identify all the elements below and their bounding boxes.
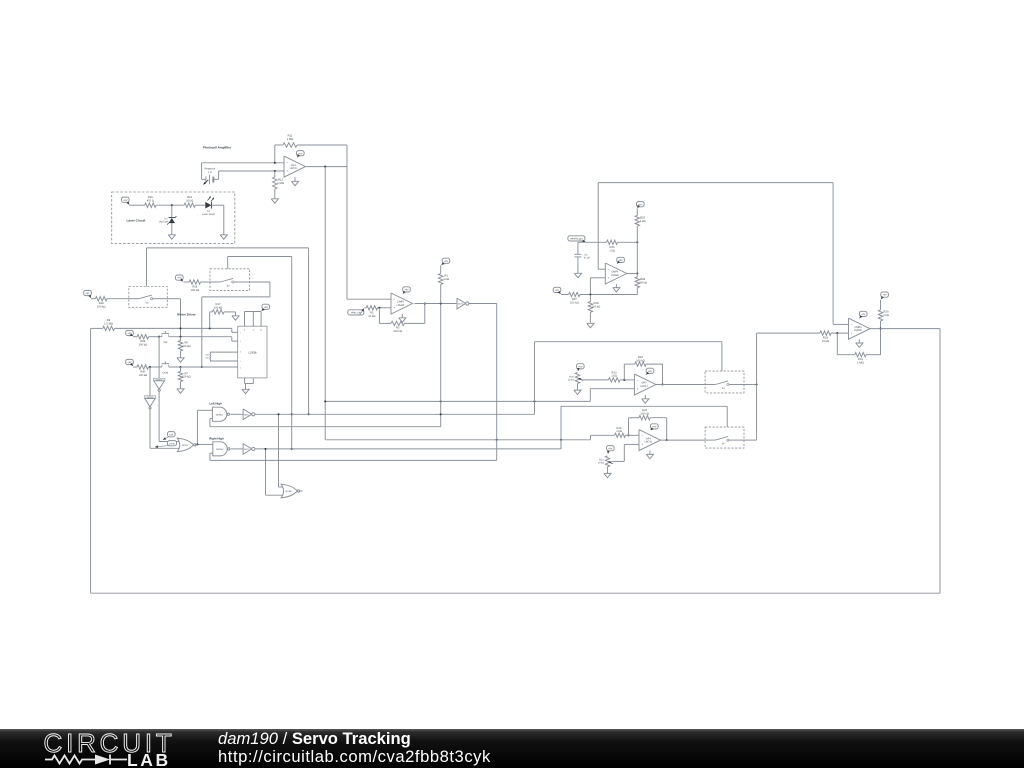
resistor R28 hyst [635, 274, 639, 295]
wire NOT3 out [159, 391, 179, 441]
node CMP1 pullup [440, 302, 442, 304]
flag VRef CMP1 [348, 309, 364, 316]
node OP1 out fb [666, 439, 668, 441]
svg-text:100 kΩ: 100 kΩ [191, 289, 200, 292]
wire S7 ctrl [561, 406, 727, 449]
wire IC top pins [245, 312, 262, 327]
wire feedback vertical [346, 145, 348, 167]
svg-text:Laser Diode: Laser Diode [202, 213, 216, 216]
photocell PC1 [202, 163, 219, 185]
op-amp CMP6 [849, 318, 871, 339]
inverter NOT1 [243, 409, 255, 420]
zener D2 [167, 205, 176, 233]
wire NOT5 out [469, 304, 497, 461]
svg-text:+9V: +9V [648, 370, 653, 373]
wire CMP4 minus stub [598, 268, 605, 270]
svg-text:9: 9 [253, 328, 254, 331]
resistor R14 [184, 280, 211, 284]
svg-text:NAND2: NAND2 [216, 448, 224, 451]
wire row D [325, 435, 614, 440]
svg-text:1 MΩ: 1 MΩ [277, 182, 284, 185]
svg-text:10 kΩ: 10 kΩ [368, 315, 375, 318]
svg-text:6: 6 [240, 366, 241, 369]
wire CCW to NOT4 [149, 367, 151, 396]
resistor-diode squiggle [45, 755, 127, 765]
svg-text:+: + [851, 331, 853, 335]
node NOT1 NOR5 [277, 413, 279, 415]
wire NOR5 out stub [299, 490, 303, 492]
switch S3 [129, 287, 168, 308]
flag V+ OA1 [297, 151, 305, 158]
wire switch bus up [756, 333, 758, 440]
wire NOT2 out row [255, 440, 561, 449]
wire CMP1 out [415, 303, 458, 305]
ground OP2 [642, 395, 649, 403]
svg-text:100 kΩ: 100 kΩ [182, 345, 191, 348]
label C2 [584, 254, 591, 260]
label R28 [638, 278, 647, 284]
svg-text:+9V: +9V [123, 199, 128, 202]
svg-text:S7: S7 [722, 443, 726, 446]
wire OP1 plus [613, 444, 639, 461]
flag V+ laser [122, 197, 130, 205]
laser diode D1 [205, 196, 224, 208]
label Laser Circuit [127, 219, 146, 223]
label R22 [636, 356, 645, 362]
resistor R24 [820, 331, 849, 335]
node CMP1 out fb [424, 302, 426, 304]
inverter NOT5 [457, 298, 469, 309]
switch S2 [210, 269, 250, 291]
svg-text:1: 1 [240, 331, 241, 334]
svg-text:+9V: +9V [619, 259, 624, 262]
resistor R27 [561, 292, 637, 296]
label R31 [857, 358, 864, 364]
flag V+ S3row [84, 290, 92, 298]
resistor R30 [878, 300, 882, 329]
ground CMP1 [399, 314, 406, 322]
svg-text:+9V: +9V [608, 447, 613, 450]
svg-text:7: 7 [240, 360, 241, 363]
flag V+ CMP4 [617, 257, 625, 263]
label Left High [209, 402, 222, 406]
op-amp CMP1 [391, 293, 413, 314]
svg-text:CCW: CCW [169, 442, 175, 445]
svg-text:NOT1: NOT1 [244, 413, 250, 416]
wire laser row [129, 204, 144, 206]
wire NOT1 to NOR5 [279, 414, 283, 487]
flag V+ pot R21 [607, 446, 615, 454]
label R17 [214, 303, 223, 309]
wire laser to gnd [223, 205, 225, 233]
ground R6 [177, 356, 184, 362]
resistor R2 CMP1 [365, 306, 392, 310]
label Right High [209, 436, 224, 440]
node CMP4 div [589, 293, 591, 295]
svg-text:LM741: LM741 [645, 441, 653, 444]
wire OA1 output [306, 166, 347, 168]
wire ref row [578, 241, 607, 243]
svg-text:16: 16 [260, 328, 262, 331]
svg-text:1N4733A: 1N4733A [159, 221, 169, 224]
wire CMP4 minus long [598, 183, 848, 325]
svg-text:100 kΩ: 100 kΩ [393, 330, 402, 333]
label R23 [640, 409, 649, 415]
svg-text:+9V: +9V [298, 152, 303, 155]
label R2 [368, 312, 375, 318]
svg-text:LM339: LM339 [397, 304, 405, 307]
svg-text:Photocell Amplifier: Photocell Amplifier [203, 146, 232, 150]
svg-text:NOR1: NOR1 [182, 444, 189, 447]
capacitor C2 [574, 242, 581, 271]
ground OP1 [646, 451, 653, 459]
flag V+ IC [262, 304, 270, 311]
op-amp OP2 [634, 374, 656, 395]
wire CMP6 out [870, 328, 940, 330]
svg-text:1 MΩ: 1 MΩ [287, 138, 294, 141]
label R13 [611, 371, 617, 377]
flag CCW net [155, 441, 177, 448]
svg-text:10 kΩ: 10 kΩ [568, 379, 575, 382]
node NAND2 in1 [196, 443, 198, 445]
potentiometer R21 [605, 456, 613, 467]
svg-text:L293B: L293B [248, 350, 256, 354]
wire OA1 minus row [202, 162, 284, 164]
svg-text:100 kΩ: 100 kΩ [636, 359, 645, 362]
switch S7 [705, 427, 744, 448]
node OP2 minus [623, 379, 625, 381]
label R9 [104, 319, 113, 325]
svg-text:1 kΩ: 1 kΩ [883, 314, 889, 317]
resistor R11 [275, 143, 347, 147]
ground R17 [232, 314, 239, 320]
svg-text:+: + [641, 443, 643, 447]
svg-text:+: + [286, 169, 288, 173]
label R8 [139, 340, 148, 346]
wire IC bottom pins [245, 378, 254, 388]
node CW R6 [179, 336, 181, 338]
label D1 [202, 210, 216, 216]
wire pullup to out [636, 242, 638, 273]
op-amp OP1 [639, 430, 661, 451]
svg-text:LM339: LM339 [611, 274, 619, 277]
gate NAND2 [213, 442, 230, 456]
ground OA1 [291, 177, 298, 185]
svg-text:100 kΩ: 100 kΩ [214, 306, 223, 309]
gate NOR5 [281, 484, 300, 498]
svg-text:S3: S3 [145, 301, 149, 304]
op-amp CMP4 [605, 263, 627, 284]
wire OP2 fb [624, 362, 662, 385]
svg-text:1 kΩ: 1 kΩ [640, 220, 646, 223]
wire OP1 out [661, 439, 706, 441]
ground CMP4 [613, 284, 620, 292]
label R3 [393, 327, 402, 333]
node CMP4 out [636, 272, 638, 274]
svg-text:100 kΩ: 100 kΩ [640, 413, 649, 416]
motor M1 [206, 352, 238, 361]
node ref out [636, 241, 638, 243]
wire bus to pin1 [232, 328, 238, 332]
svg-text:S2: S2 [227, 285, 231, 288]
svg-text:100 kΩ: 100 kΩ [570, 301, 579, 304]
resistor R26 [607, 240, 638, 244]
svg-text:1 kΩ: 1 kΩ [616, 430, 622, 433]
wire CW to NOT3 [158, 337, 160, 379]
label R30 [883, 311, 889, 317]
svg-text:M1: M1 [206, 353, 210, 356]
wire NOT1 out row [255, 413, 535, 415]
label R16 [186, 196, 193, 202]
svg-text:+9V: +9V [404, 289, 409, 292]
wire S3 control [147, 248, 309, 414]
flag V+ CMP6 [859, 311, 867, 318]
wire S2 control [228, 257, 292, 449]
laser circuit box [112, 192, 235, 244]
inverter NOT4 [144, 396, 156, 409]
flag V+ R30 [881, 292, 889, 299]
resistor R15 [145, 203, 185, 207]
wire bottom rail [91, 592, 940, 594]
label R14 [191, 286, 200, 292]
wire OA1 out down [347, 167, 391, 300]
node CMP6 plus [836, 332, 838, 334]
wire OP1 fb [629, 416, 667, 441]
pushbutton CW [159, 331, 232, 344]
node CMP6 out [879, 328, 881, 330]
wire NAND1 in1 [197, 410, 212, 444]
node CMP1 plus [378, 307, 380, 309]
svg-text:8: 8 [244, 328, 245, 331]
svg-text:1 kΩ: 1 kΩ [609, 249, 615, 252]
resistor R7 [178, 367, 182, 387]
wire NOT4 out [150, 409, 179, 448]
label D2 [159, 218, 169, 224]
resistor R16 [184, 203, 205, 207]
resistor R29 [588, 295, 592, 322]
wire CMP4 plus [590, 278, 605, 295]
wire NAND1 in2 [210, 419, 441, 427]
svg-text:1 Ω: 1 Ω [208, 171, 212, 174]
svg-text:−: − [851, 323, 853, 327]
label R18 [97, 302, 106, 308]
svg-text:+9V: +9V [578, 365, 583, 368]
svg-text:+9V: +9V [555, 289, 560, 292]
ground R12 [271, 197, 278, 203]
node S4 out [756, 383, 758, 385]
inverter NOT2 [243, 444, 255, 455]
ground R29 [587, 322, 594, 328]
label R21 [598, 458, 605, 464]
resistor R40 [133, 365, 162, 369]
flag CW net [163, 432, 175, 440]
node NOT2 NOR5 [264, 448, 266, 450]
gate NOR1 [177, 438, 196, 452]
svg-text:+: + [637, 387, 639, 391]
pushbutton CCW [162, 361, 238, 374]
node bus S3 [179, 327, 181, 329]
svg-text:+9V: +9V [861, 313, 866, 316]
wire NAND2 in2 [210, 453, 497, 460]
flag VRefToLight [568, 236, 586, 243]
svg-text:100 kΩ: 100 kΩ [182, 376, 191, 379]
node S3 ctrl join [308, 413, 310, 415]
wire S3 out [167, 299, 180, 337]
svg-text:CCW: CCW [162, 371, 168, 374]
wire S7 out [744, 439, 757, 441]
label R27 [570, 298, 579, 304]
wire NAND1 out [230, 413, 243, 415]
resistor R1 pullup [439, 265, 443, 303]
CircuitLab logo [30, 729, 180, 773]
ground R20 [574, 384, 581, 395]
label R40 [139, 371, 148, 377]
wire left rail [90, 328, 92, 593]
flag V+ pot R20 [577, 364, 585, 371]
svg-text:100 Ω: 100 Ω [186, 199, 193, 202]
label R7 [182, 372, 191, 378]
label R20 [568, 375, 575, 381]
flag V+ OP1 [651, 424, 659, 430]
flag V+ OP2 [646, 368, 654, 374]
ground laser [220, 233, 227, 239]
svg-text:1 kΩ: 1 kΩ [443, 278, 449, 281]
gate NAND1 [212, 407, 229, 421]
svg-text:1 MΩ: 1 MΩ [857, 362, 864, 365]
svg-text:LAB: LAB [127, 750, 171, 768]
svg-text:2: 2 [240, 340, 241, 343]
svg-text:470 Ω: 470 Ω [147, 199, 154, 202]
wire right rail [939, 329, 941, 594]
label R11 [287, 135, 294, 141]
ground CMP6 [856, 339, 863, 347]
node CCW tap [149, 366, 151, 368]
ground R7 [177, 387, 184, 393]
svg-text:NAND1: NAND1 [216, 413, 224, 416]
wire OP2 out [656, 384, 705, 386]
label R6 [182, 342, 191, 348]
wire S4 out [744, 384, 757, 386]
svg-text:+9V: +9V [883, 294, 888, 297]
svg-text:10 kΩ: 10 kΩ [598, 462, 605, 465]
wire S2 out [202, 282, 270, 367]
label R1 [443, 275, 449, 281]
wire CMP1 out down [440, 304, 442, 427]
node bus R17 [209, 327, 211, 329]
label R12 [277, 179, 284, 185]
resistor R18 [91, 297, 129, 301]
label Photocell Amplifier [203, 146, 232, 150]
svg-text:−: − [393, 297, 395, 301]
node rowD not [496, 439, 498, 441]
svg-text:Motor Driver: Motor Driver [177, 313, 196, 317]
resistor R6 [178, 337, 182, 356]
svg-text:Left High: Left High [209, 402, 222, 406]
node zener tap [171, 204, 173, 206]
label R24 [822, 337, 829, 343]
svg-text:−: − [641, 434, 643, 438]
wire NAND2 in1 [197, 443, 212, 445]
flag V+ R1 [441, 258, 450, 265]
svg-text:3: 3 [240, 350, 241, 353]
inverter NOT3 [153, 378, 165, 391]
svg-text:+9V: +9V [652, 426, 657, 429]
op-amp OA1 [284, 156, 306, 177]
svg-text:100 kΩ: 100 kΩ [139, 374, 148, 377]
svg-text:47 µF: 47 µF [584, 257, 591, 260]
label R19 [616, 427, 622, 433]
svg-text:Laser Circuit: Laser Circuit [127, 219, 146, 223]
flag V+ R25 [637, 202, 645, 209]
ground zener [168, 233, 175, 239]
svg-text:NOT2: NOT2 [244, 448, 250, 451]
svg-text:LM741: LM741 [290, 167, 298, 170]
svg-text:100 kΩ: 100 kΩ [139, 344, 148, 347]
wire NAND2 out [231, 448, 243, 450]
svg-text:+: + [608, 276, 610, 280]
flag V+ S2row [176, 275, 184, 281]
node plus junction [274, 170, 276, 172]
node OP1 minus [627, 434, 629, 436]
svg-text:LM741: LM741 [640, 385, 648, 388]
switch S4 [705, 371, 744, 393]
node CW tap [158, 336, 160, 338]
wire CMP1 hyst [379, 304, 424, 326]
svg-text:LM339: LM339 [854, 329, 862, 332]
wire CMP6 fb [837, 329, 880, 357]
node minus junction [274, 162, 276, 164]
label Motor Driver [177, 313, 196, 317]
wire CW to pin2 [232, 337, 238, 341]
svg-text:NOT5: NOT5 [458, 303, 464, 306]
wire NOT2 to NOR5 [266, 449, 283, 495]
label R26 [609, 246, 615, 252]
resistor R9 [91, 326, 232, 330]
node CCW R7 [179, 366, 181, 368]
svg-text:+9V: +9V [264, 306, 269, 309]
potentiometer R20 [575, 373, 608, 384]
svg-text:−: − [286, 160, 288, 164]
label R15 [147, 196, 154, 202]
svg-text:100 kΩ: 100 kΩ [592, 305, 601, 308]
wire OA1 out long vertical [324, 167, 326, 440]
svg-text:DC: DC [206, 357, 210, 360]
svg-text:−: − [637, 378, 639, 382]
svg-text:+: + [393, 306, 395, 310]
svg-text:100 kΩ: 100 kΩ [97, 306, 106, 309]
flag V+ R27 [553, 287, 561, 294]
IC U1 L293B [238, 326, 267, 378]
node rowD s [560, 439, 562, 441]
wire row A OA1 to OP2 [325, 389, 634, 402]
label R25 [640, 217, 646, 223]
ground R21 [604, 467, 611, 478]
wire CMP6 plus row [757, 332, 820, 334]
resistor R19 [615, 433, 639, 437]
ground IC [242, 388, 249, 394]
wire R11 to minus [274, 145, 276, 163]
svg-text:S4: S4 [722, 387, 726, 390]
svg-text:100 kΩ: 100 kΩ [638, 281, 647, 284]
flag V+ CW [126, 330, 134, 336]
svg-text:+9V: +9V [85, 292, 90, 295]
svg-text:+9V: +9V [444, 260, 449, 263]
svg-text:Right High: Right High [209, 436, 224, 440]
node S2 ctrl join [291, 413, 293, 450]
wire CMP4 out stub [627, 273, 638, 275]
flag V+ CMP1 [403, 287, 411, 294]
resistor R8 [133, 335, 159, 339]
